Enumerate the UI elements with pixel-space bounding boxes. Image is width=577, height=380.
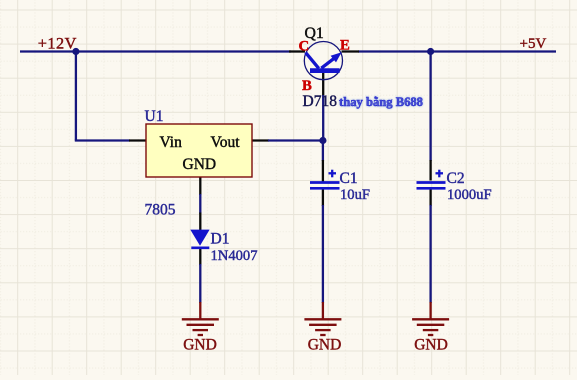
wire U1 GND to D1 xyxy=(199,194,201,214)
pin Q1 base stub xyxy=(322,72,324,96)
svg-text:10uF: 10uF xyxy=(340,187,370,203)
pin Q1 collector stub xyxy=(289,50,305,52)
svg-text:E: E xyxy=(340,38,350,54)
pin U1 GND bottom xyxy=(199,177,201,195)
svg-text:GND: GND xyxy=(308,337,342,354)
pin D1 cathode xyxy=(199,248,201,265)
ground symbol left (under D1) xyxy=(182,302,219,335)
wire U1 Vout to node xyxy=(268,139,323,141)
svg-text:C: C xyxy=(299,39,310,55)
ground symbol middle (under C1) xyxy=(304,302,341,335)
wire C1 to ground xyxy=(322,205,324,303)
svg-text:GND: GND xyxy=(183,337,217,354)
svg-text:C2: C2 xyxy=(447,170,465,187)
svg-text:1000uF: 1000uF xyxy=(447,187,492,203)
pin C1 bottom xyxy=(322,189,324,206)
svg-text:D718: D718 xyxy=(303,93,338,110)
pin U1 Vin xyxy=(129,139,146,141)
wire C2 to ground xyxy=(429,205,431,303)
transistor Q1 xyxy=(304,42,342,80)
diode D1 xyxy=(190,230,209,248)
ground symbol right (under C2) xyxy=(412,302,449,335)
svg-text:7805: 7805 xyxy=(145,202,176,219)
svg-text:C1: C1 xyxy=(340,170,358,187)
svg-text:thay bằng B688: thay bằng B688 xyxy=(339,95,423,109)
junction at +5V/C2 drop xyxy=(427,48,434,55)
wire D1 to ground xyxy=(199,264,201,303)
wire top rail right segment (Q1 emitter to +5V) xyxy=(358,50,556,52)
svg-text:1N4007: 1N4007 xyxy=(211,248,258,264)
component U1 voltage regulator 7805 body xyxy=(146,124,252,177)
wire top rail left segment (+12V to Q1 collector) xyxy=(20,50,291,52)
wire C2 vertical from top rail xyxy=(429,52,431,162)
wire node to C1 xyxy=(322,141,324,162)
junction at Vout/base/C1 node xyxy=(319,137,326,144)
pin D1 anode xyxy=(199,213,201,231)
svg-text:U1: U1 xyxy=(145,108,164,125)
pin C1 top xyxy=(322,160,324,182)
svg-text:Vin: Vin xyxy=(160,134,183,151)
capacitor C1 xyxy=(310,170,340,189)
capacitor C2 xyxy=(417,170,446,189)
svg-text:+12V: +12V xyxy=(38,34,77,53)
pin C2 bottom xyxy=(429,189,431,206)
svg-text:GND: GND xyxy=(414,337,448,354)
svg-text:GND: GND xyxy=(183,156,217,173)
wire to U1 Vin xyxy=(75,139,130,141)
wire +12V vertical drop xyxy=(75,52,77,141)
svg-text:+5V: +5V xyxy=(520,36,547,52)
pin Q1 emitter stub xyxy=(342,50,360,52)
svg-text:D1: D1 xyxy=(211,231,230,248)
junction at +12V drop xyxy=(72,48,79,55)
svg-text:Vout: Vout xyxy=(211,134,241,151)
pin U1 Vout xyxy=(252,139,269,141)
pin C2 top xyxy=(429,160,431,181)
wire Q1 base to node xyxy=(322,95,324,141)
svg-text:B: B xyxy=(302,78,312,94)
